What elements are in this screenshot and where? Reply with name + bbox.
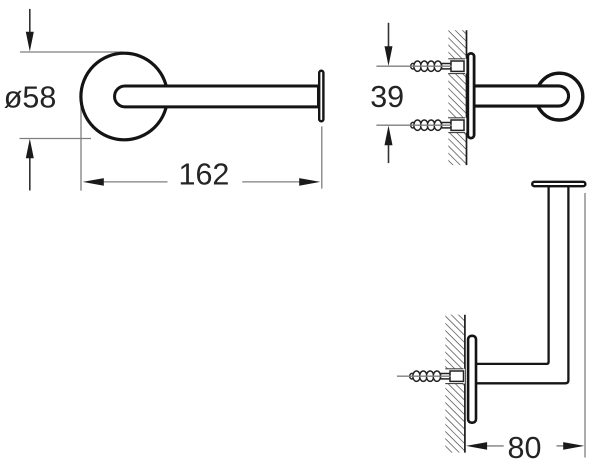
svg-text:ø58: ø58 [4,81,57,115]
svg-text:80: 80 [508,431,542,465]
svg-text:162: 162 [179,157,230,191]
svg-text:39: 39 [370,80,404,114]
